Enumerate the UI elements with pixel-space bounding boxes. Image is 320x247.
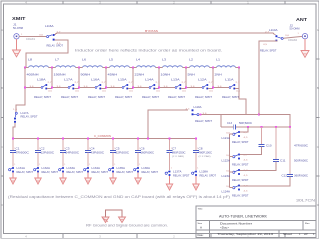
svg-text:<Doc>: <Doc> [220,227,230,230]
svg-text:L2: L2 [189,58,194,62]
svg-text:RELAY, SPDT: RELAY, SPDT [92,171,109,174]
svg-text:RELAY, SPDT: RELAY, SPDT [42,171,59,174]
svg-text:XMIT: XMIT [12,16,26,22]
svg-text:Date:: Date: [198,234,204,237]
svg-text:90NH: 90NH [81,72,91,76]
svg-text:L8: L8 [28,58,33,62]
svg-text:Thursday, September 19, 2013: Thursday, September 19, 2013 [217,232,274,236]
svg-text:L6: L6 [82,58,87,62]
svg-text:Inductor order here reflects i: Inductor order here reflects inductor or… [75,49,222,53]
svg-text:RELAY, SPDT: RELAY, SPDT [17,171,34,174]
svg-text:C12: C12 [282,175,288,178]
svg-text:47P,600C: 47P,600C [294,145,308,148]
svg-text:50-OHM: 50-OHM [290,28,300,31]
svg-text:of: of [304,233,308,236]
svg-text:L15A: L15A [118,77,127,81]
svg-text:C5: C5 [116,146,121,150]
svg-text:L133A: L133A [67,167,76,170]
svg-text:50-OHM: 50-OHM [13,27,23,30]
svg-text:RELAY, SPDT: RELAY, SPDT [260,49,277,52]
svg-text:L119A: L119A [194,106,202,109]
svg-text:RELAY, SPDT: RELAY, SPDT [168,96,186,99]
svg-text:Sheet: Sheet [283,233,292,236]
svg-text:L137A: L137A [173,170,182,173]
svg-text:L136A: L136A [142,167,151,170]
svg-text:RELAY, SPDT: RELAY, SPDT [142,171,159,174]
svg-text:RELAY, SPDT: RELAY, SPDT [21,116,39,119]
svg-text:L132A: L132A [42,167,51,170]
svg-text:AUTO-TUNER, L/NETWORK: AUTO-TUNER, L/NETWORK [219,214,268,218]
svg-text:C4: C4 [91,146,96,150]
svg-text:C_COMMON: C_COMMON [94,134,111,138]
svg-text:L117A: L117A [21,112,29,115]
svg-text:RELAY, SPDT: RELAY, SPDT [195,96,213,99]
svg-text:L116A: L116A [45,25,54,28]
svg-text:L5: L5 [109,58,114,62]
svg-text:L13A: L13A [171,77,180,81]
svg-text:L135A: L135A [117,167,126,170]
svg-text:B: B [1,86,3,90]
svg-text:COAX2: COAX2 [288,39,298,42]
svg-text:C11: C11 [280,160,286,163]
svg-text:30L7CN: 30L7CN [296,198,316,202]
svg-text:22NH: 22NH [135,72,145,76]
svg-text:5NH: 5NH [188,72,195,76]
svg-text:RELAY, SPDT: RELAY, SPDT [232,194,249,197]
svg-text:RELAY, SPDT: RELAY, SPDT [61,96,79,99]
svg-text:2NH: 2NH [215,72,222,76]
svg-text:780P,100C: 780P,100C [199,151,213,154]
svg-text:RELAY, SPDT: RELAY, SPDT [34,96,52,99]
svg-text:C: C [1,145,3,149]
svg-text:(Residual capacitance between: (Residual capacitance between C_COMMON a… [8,195,230,199]
svg-text:RELAY, SPDT: RELAY, SPDT [232,141,249,144]
svg-text:RELAY, SPDT: RELAY, SPDT [200,174,217,177]
svg-text:L131A: L131A [17,167,26,170]
svg-text:L3: L3 [162,58,167,62]
svg-text:A: A [200,226,202,230]
svg-text:Document Number: Document Number [220,222,252,225]
svg-text:ANT: ANT [296,17,307,23]
svg-text:L11A: L11A [225,77,234,81]
svg-text:(2 X PAR): (2 X PAR) [199,155,211,158]
svg-text:RELAY, SPDT: RELAY, SPDT [173,174,190,177]
svg-text:RELAY, SPDT: RELAY, SPDT [142,96,160,99]
svg-text:L124A: L124A [222,191,231,194]
svg-text:(2 X PAR): (2 X PAR) [172,155,184,158]
svg-text:50P,600C: 50P,600C [239,122,252,125]
svg-text:L110A: L110A [269,29,278,32]
svg-text:RELAY, SPDT: RELAY, SPDT [232,163,249,166]
svg-text:B: B [317,86,319,90]
svg-text:L7: L7 [55,58,60,62]
svg-text:45NH: 45NH [108,72,118,76]
svg-text:82P,600C: 82P,600C [116,151,130,154]
svg-text:400NH: 400NH [27,72,39,76]
svg-text:L16A: L16A [91,77,100,81]
svg-text:L18A: L18A [37,77,46,81]
svg-text:L1: L1 [216,58,221,62]
svg-text:C1: C1 [16,146,21,150]
svg-text:D: D [1,203,3,207]
svg-text:RELAY, SPDT: RELAY, SPDT [117,171,134,174]
svg-text:7P,600C: 7P,600C [16,151,30,154]
svg-text:C2: C2 [41,146,46,150]
svg-text:A: A [1,28,3,32]
svg-text:L123A: L123A [222,175,231,178]
svg-text:D: D [317,203,319,207]
svg-text:43P,600C: 43P,600C [91,151,105,154]
svg-text:RELAY, SPDT: RELAY, SPDT [195,120,213,123]
svg-text:BYPASS: BYPASS [145,29,158,33]
svg-text:RF Ground and Signal Ground ar: RF Ground and Signal Ground are common. [86,223,168,227]
svg-text:L122A: L122A [222,160,231,163]
svg-text:C6: C6 [141,146,146,150]
svg-text:C8: C8 [199,146,204,150]
svg-text:500P,600C: 500P,600C [294,160,308,163]
svg-text:L121A: L121A [222,137,231,140]
svg-text:RELAY, SPDT: RELAY, SPDT [115,96,133,99]
svg-text:C7: C7 [172,146,177,150]
svg-text:COAX1: COAX1 [26,38,36,41]
svg-text:RELAY, SPDT: RELAY, SPDT [47,44,64,47]
svg-text:24P,600C: 24P,600C [66,151,80,154]
svg-text:390P,250C: 390P,250C [172,151,186,154]
svg-text:L138A: L138A [200,170,209,173]
svg-text:A: A [317,28,319,32]
svg-text:C13: C13 [227,122,233,125]
svg-text:RELAY, SPDT: RELAY, SPDT [88,96,106,99]
svg-text:C: C [317,145,319,149]
svg-text:C3: C3 [66,146,71,150]
svg-text:RELAY, SPDT: RELAY, SPDT [222,96,240,99]
svg-text:12P,600C: 12P,600C [41,151,55,154]
svg-text:10NH: 10NH [161,72,171,76]
svg-text:C10: C10 [266,145,272,148]
svg-text:L12A: L12A [198,77,207,81]
svg-text:360P,600C: 360P,600C [294,175,308,178]
svg-text:160P,600C: 160P,600C [141,151,155,154]
svg-text:L134A: L134A [92,167,101,170]
svg-text:L4: L4 [136,58,141,62]
svg-text:L17A: L17A [64,77,73,81]
svg-text:L14A: L14A [145,77,154,81]
svg-text:RELAY, SPDT: RELAY, SPDT [232,179,249,182]
svg-text:190NH: 190NH [54,72,66,76]
svg-text:RELAY, SPDT: RELAY, SPDT [67,171,84,174]
